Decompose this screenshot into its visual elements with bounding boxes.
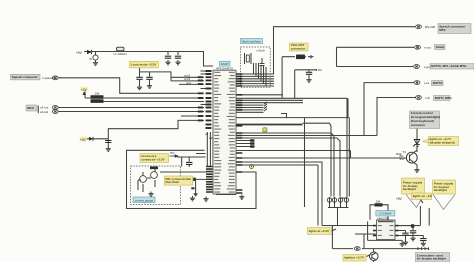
svg-text:SAM7: SAM7 bbox=[221, 62, 230, 66]
svg-text:connector: connector bbox=[291, 46, 306, 50]
svg-text:x-ra: x-ra bbox=[424, 81, 429, 85]
svg-text:rg: rg bbox=[89, 57, 92, 61]
svg-text:+5V: +5V bbox=[76, 51, 83, 55]
svg-text:R33: R33 bbox=[396, 152, 402, 156]
svg-text:lightbar +3.7V: lightbar +3.7V bbox=[344, 255, 364, 259]
svg-text:current gauge: current gauge bbox=[135, 198, 154, 202]
svg-text:1.8V: 1.8V bbox=[316, 68, 322, 72]
svg-text:x2-txd: x2-txd bbox=[40, 110, 49, 114]
svg-text:(display stripped): (display stripped) bbox=[430, 140, 455, 144]
svg-text:tdo: tdo bbox=[209, 136, 214, 140]
svg-text:Speech connector: Speech connector bbox=[12, 75, 39, 79]
svg-text:tdi: tdi bbox=[205, 132, 209, 136]
svg-text:RATTA, MTL, SAGE MTH: RATTA, MTL, SAGE MTH bbox=[431, 64, 466, 68]
svg-text:x-rb: x-rb bbox=[425, 96, 430, 100]
svg-text:flash interface: flash interface bbox=[242, 40, 261, 44]
svg-text:RATTA: RATTA bbox=[433, 81, 444, 85]
svg-text:MCU: MCU bbox=[27, 106, 34, 110]
svg-text:+3V: +3V bbox=[81, 88, 88, 92]
svg-text:AT91SAM7S: AT91SAM7S bbox=[216, 67, 233, 71]
svg-text:gnd: gnd bbox=[186, 81, 191, 85]
svg-text:10k: 10k bbox=[95, 92, 100, 96]
svg-text:LTC4064: LTC4064 bbox=[379, 212, 391, 216]
svg-text:connector: connector bbox=[411, 123, 426, 127]
svg-text:connector +3.3V: connector +3.3V bbox=[141, 157, 164, 161]
svg-text:x-speech: x-speech bbox=[42, 76, 55, 80]
svg-text:Local mode +3.3V: Local mode +3.3V bbox=[131, 62, 156, 66]
svg-text:547: 547 bbox=[400, 157, 405, 161]
svg-text:for display backlight: for display backlight bbox=[417, 257, 446, 261]
svg-text:u-flash: u-flash bbox=[256, 49, 265, 53]
svg-text:acc: acc bbox=[170, 151, 175, 155]
svg-text:L1 100uH: L1 100uH bbox=[113, 52, 126, 56]
svg-text:MTS: MTS bbox=[439, 28, 445, 32]
svg-text:10k: 10k bbox=[376, 199, 381, 203]
svg-text:+3V: +3V bbox=[80, 138, 87, 142]
svg-text:backlight: backlight bbox=[403, 187, 416, 191]
svg-text:+5V: +5V bbox=[396, 197, 403, 201]
svg-text:x-out: x-out bbox=[424, 46, 431, 50]
svg-text:Run flash: Run flash bbox=[166, 180, 180, 184]
svg-text:MAX756: MAX756 bbox=[377, 216, 389, 220]
svg-text:RS-232: RS-232 bbox=[425, 25, 436, 29]
svg-text:backlight: backlight bbox=[434, 188, 447, 192]
svg-text:lights at +3.3V: lights at +3.3V bbox=[309, 229, 329, 233]
svg-text:lights on ~3.9: lights on ~3.9 bbox=[413, 194, 433, 198]
svg-text:Smart: Smart bbox=[436, 45, 445, 49]
svg-text:RATTL MTH: RATTL MTH bbox=[435, 96, 452, 100]
